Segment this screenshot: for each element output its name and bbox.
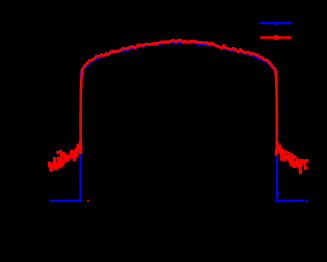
blue ideal profile curve	[50, 42, 308, 203]
legend blue line	[260, 22, 292, 25]
red measured profile curve	[48, 39, 309, 202]
legend red line with marker	[260, 35, 291, 40]
